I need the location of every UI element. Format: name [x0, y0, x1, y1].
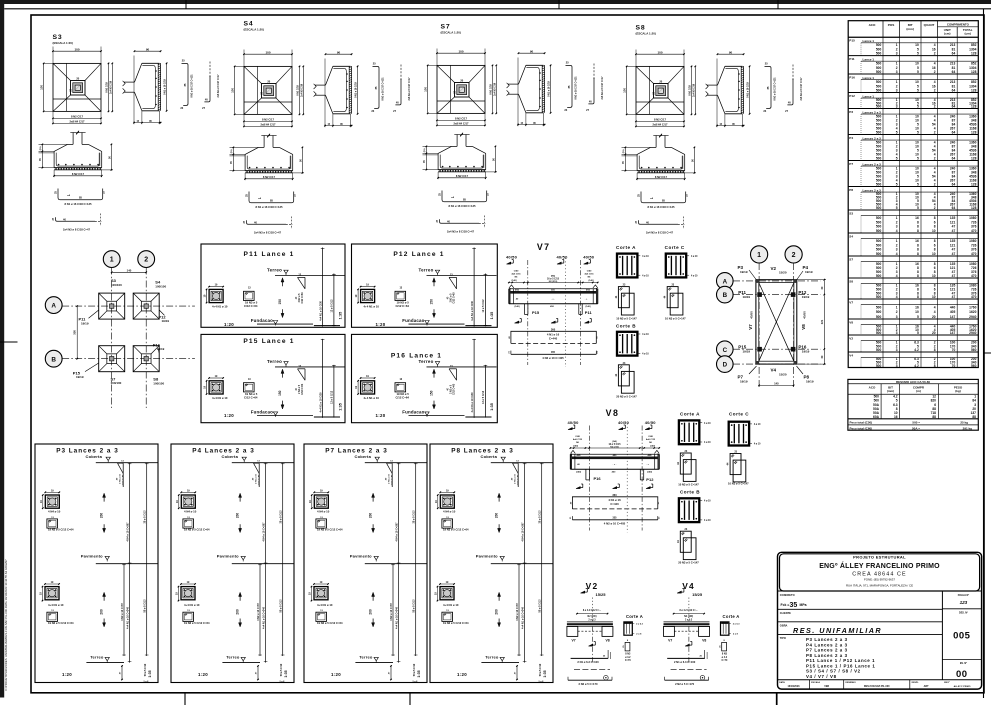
column location plan [758, 263, 760, 389]
svg-text:Lance 1: Lance 1 [863, 94, 875, 98]
grid bubble C [717, 341, 734, 358]
svg-text:5: 5 [917, 52, 919, 56]
svg-text:20 N3 ø 5 C=147: 20 N3 ø 5 C=147 [616, 395, 637, 399]
svg-text:2: 2 [934, 52, 936, 56]
svg-text:V4: V4 [771, 368, 777, 373]
svg-text:10: 10 [932, 229, 936, 233]
svg-text:3: 3 [896, 89, 898, 93]
svg-text:V8: V8 [849, 320, 853, 324]
svg-text:3: 3 [896, 315, 898, 319]
svg-text:50A =: 50A = [912, 426, 920, 430]
svg-text:100/100: 100/100 [111, 283, 122, 287]
svg-text:P8: P8 [849, 188, 853, 192]
svg-text:TIPO: TIPO [780, 636, 786, 640]
svg-text:2: 2 [144, 257, 148, 264]
svg-text:47: 47 [952, 229, 956, 233]
svg-text:19/19: 19/19 [743, 295, 751, 299]
labels [749, 270, 757, 280]
dim 350 between rows [76, 306, 78, 359]
svg-text:V4: V4 [849, 353, 853, 357]
svg-text:64: 64 [952, 70, 956, 74]
svg-text:40/50: 40/50 [750, 311, 754, 319]
footing S8 plan at P16 [133, 346, 159, 372]
svg-text:B: B [723, 292, 728, 299]
svg-text:10: 10 [932, 274, 936, 278]
dim 140 between grids [112, 271, 147, 273]
svg-text:221: 221 [820, 319, 824, 324]
footing S7 plan at P15 [99, 346, 125, 372]
paper edge lines [4, 8, 991, 10]
svg-text:P15 Lance 1: P15 Lance 1 [243, 338, 294, 345]
svg-text:2: 2 [934, 157, 936, 161]
svg-text:8: 8 [917, 274, 919, 278]
grid bubble 2 [785, 246, 802, 263]
svg-text:VER: VER [824, 685, 829, 688]
svg-text:DATA: DATA [779, 681, 785, 684]
svg-text:64: 64 [952, 157, 956, 161]
svg-text:S3: S3 [53, 34, 63, 41]
svg-text:ES. Nº: ES. Nº [960, 662, 967, 665]
svg-text:P16: P16 [849, 75, 855, 79]
svg-text:2: 2 [934, 183, 936, 187]
svg-text:10 N3 ø 5 C=147: 10 N3 ø 5 C=147 [665, 317, 686, 321]
svg-text:(kg): (kg) [955, 389, 961, 393]
svg-text:5: 5 [917, 70, 919, 74]
svg-text:ACO: ACO [869, 23, 876, 27]
svg-text:(ESCALA 1:20): (ESCALA 1:20) [441, 30, 461, 34]
svg-text:15/20: 15/20 [779, 372, 787, 376]
svg-text:P4: P4 [849, 136, 853, 140]
svg-text:128: 128 [971, 89, 977, 93]
svg-text:RES-FUN-SAP-PIL-000: RES-FUN-SAP-PIL-000 [864, 685, 890, 688]
svg-text:PROJETO ESTRUTURAL: PROJETO ESTRUTURAL [853, 555, 906, 560]
svg-text:5: 5 [917, 89, 919, 93]
grid row B [62, 358, 195, 360]
svg-text:291 kg: 291 kg [963, 426, 973, 430]
svg-text:P12 Lance 1: P12 Lance 1 [393, 251, 444, 258]
svg-text:5: 5 [917, 183, 919, 187]
svg-text:140: 140 [127, 268, 132, 272]
svg-text:5: 5 [917, 131, 919, 135]
svg-text:128: 128 [971, 131, 977, 135]
svg-text:Corte B: Corte B [680, 489, 700, 494]
svg-text:4: 4 [896, 229, 898, 233]
svg-text:(cm): (cm) [944, 31, 950, 35]
svg-text:(ESCALA 1:20): (ESCALA 1:20) [636, 31, 656, 35]
svg-text:(cm): (cm) [965, 31, 971, 35]
svg-text:(ESCALA 1:20): (ESCALA 1:20) [244, 27, 264, 31]
column P15 [757, 347, 762, 352]
label P16 [158, 349, 159, 354]
svg-text:500: 500 [876, 274, 882, 278]
svg-text:470: 470 [971, 274, 977, 278]
svg-text:5: 5 [896, 157, 898, 161]
svg-text:S4: S4 [849, 234, 853, 238]
svg-text:P11 Lance 1 / P12 Lance 1: P11 Lance 1 / P12 Lance 1 [806, 658, 875, 663]
svg-text:V7: V7 [537, 242, 551, 252]
svg-text:35: 35 [790, 602, 798, 609]
svg-text:19/19: 19/19 [740, 379, 748, 383]
svg-text:19/19: 19/19 [806, 379, 814, 383]
svg-text:128: 128 [971, 157, 977, 161]
svg-text:20 N3 ø 5 C=147: 20 N3 ø 5 C=147 [678, 561, 699, 565]
svg-text:P7 Lances 2 a 3: P7 Lances 2 a 3 [806, 648, 848, 653]
svg-text:500: 500 [876, 157, 882, 161]
svg-text:D: D [723, 362, 728, 369]
svg-text:19/19: 19/19 [743, 349, 751, 353]
svg-text:1: 1 [757, 252, 761, 259]
svg-text:10: 10 [915, 310, 919, 314]
column P11 [757, 292, 762, 297]
svg-text:1620: 1620 [969, 310, 976, 314]
svg-text:500 =: 500 = [912, 420, 920, 424]
svg-text:47: 47 [952, 252, 956, 256]
svg-text:P15: P15 [532, 310, 540, 315]
svg-text:005: 005 [953, 631, 971, 642]
svg-text:560: 560 [971, 364, 977, 368]
svg-text:V7: V7 [748, 324, 753, 330]
svg-text:100/100: 100/100 [155, 285, 166, 289]
grid row A [62, 305, 195, 307]
svg-text:16: 16 [915, 305, 919, 309]
svg-text:2: 2 [934, 70, 936, 74]
svg-text:3: 3 [896, 70, 898, 74]
label P11 [89, 310, 99, 318]
svg-text:128: 128 [971, 70, 977, 74]
svg-text:P15 Lance 1 / P16 Lance 1: P15 Lance 1 / P16 Lance 1 [806, 663, 875, 668]
svg-text:500: 500 [876, 229, 882, 233]
svg-text:Corte C: Corte C [665, 245, 685, 250]
svg-text:P16: P16 [594, 476, 602, 481]
svg-text:RUA ITÁLIA, 971, MARAPONGA, FO: RUA ITÁLIA, 971, MARAPONGA, FORTALEZA / … [846, 583, 913, 587]
steel summary table [848, 379, 978, 430]
svg-text:19/19: 19/19 [802, 349, 810, 353]
column P11 lance 1 detail box [201, 244, 345, 327]
svg-text:V4 / V7 / V8: V4 / V7 / V8 [806, 674, 837, 679]
svg-text:P11: P11 [585, 310, 593, 315]
svg-text:Corte C: Corte C [729, 412, 749, 417]
svg-text:64: 64 [952, 89, 956, 93]
svg-text:19/19: 19/19 [740, 270, 748, 274]
svg-text:4.2: 4.2 [914, 364, 919, 368]
sheet black margin bands [0, 0, 991, 4]
svg-text:(mm): (mm) [906, 27, 914, 31]
svg-text:P3: P3 [849, 110, 853, 114]
svg-text:RES. UNIFAMILIAR: RES. UNIFAMILIAR [793, 626, 882, 635]
svg-text:500: 500 [876, 52, 882, 56]
footing S3 plan at P11 [99, 293, 125, 319]
svg-text:20: 20 [932, 315, 936, 319]
svg-text:Peso total (C50): Peso total (C50) [850, 420, 873, 424]
svg-text:16/10/2023: 16/10/2023 [788, 685, 801, 688]
grid bubble D [717, 356, 734, 373]
svg-text:P15: P15 [849, 39, 855, 43]
svg-text:V8: V8 [606, 408, 620, 418]
svg-text:47: 47 [952, 274, 956, 278]
svg-text:ENGº ÁLLEY FRANCELINO PRIMO: ENGº ÁLLEY FRANCELINO PRIMO [819, 561, 940, 570]
grid bubble 1 [103, 251, 120, 268]
svg-text:5: 5 [917, 315, 919, 319]
svg-text:Corte A: Corte A [680, 412, 700, 417]
svg-text:500: 500 [876, 183, 882, 187]
svg-text:P8 Lances 2 a 3: P8 Lances 2 a 3 [806, 653, 848, 658]
svg-text:500: 500 [876, 131, 882, 135]
svg-text:V2: V2 [771, 266, 777, 271]
svg-text:10 N3 ø 5 C=147: 10 N3 ø 5 C=147 [678, 483, 699, 487]
svg-text:19/19: 19/19 [805, 270, 813, 274]
svg-text:ENGº: ENGº [944, 681, 950, 684]
grid bubble B [717, 286, 734, 303]
svg-text:Peso total (C60): Peso total (C60) [850, 426, 873, 430]
svg-text:B: B [51, 356, 56, 363]
svg-text:2: 2 [792, 252, 796, 259]
svg-text:64: 64 [952, 131, 956, 135]
svg-text:5: 5 [896, 131, 898, 135]
svg-text:2940: 2940 [969, 315, 976, 319]
column P3 lances 2 a 3 detail box [35, 444, 158, 683]
grid bubble A [45, 297, 62, 314]
svg-text:S7: S7 [849, 257, 853, 261]
svg-text:C: C [723, 347, 728, 354]
svg-text:145: 145 [774, 382, 779, 386]
fold marks [185, 0, 187, 9]
svg-text:DESPL: DESPL [912, 682, 920, 684]
svg-text:500: 500 [876, 70, 882, 74]
svg-text:500: 500 [876, 252, 882, 256]
svg-text:Lance 1: Lance 1 [863, 76, 875, 80]
svg-text:123: 123 [960, 600, 968, 605]
svg-text:P12: P12 [849, 94, 855, 98]
svg-text:10 N3 ø 5 C=147: 10 N3 ø 5 C=147 [616, 317, 637, 321]
svg-text:19/19: 19/19 [162, 319, 170, 323]
svg-text:P4 Lances 2 a 3: P4 Lances 2 a 3 [806, 642, 848, 647]
svg-text:4: 4 [934, 305, 936, 309]
svg-text:V2: V2 [849, 336, 853, 340]
grid line 2 [145, 268, 147, 409]
svg-text:OBRA: OBRA [780, 623, 788, 627]
svg-text:Lance 1: Lance 1 [863, 39, 875, 43]
svg-text:S8: S8 [849, 279, 853, 283]
svg-text:500: 500 [876, 315, 882, 319]
svg-text:V7: V7 [849, 300, 853, 304]
svg-text:500: 500 [876, 305, 882, 309]
column P12 lance 1 detail box [352, 244, 498, 327]
svg-text:Fck =: Fck = [781, 603, 790, 607]
label P15 [85, 363, 99, 372]
svg-text:1760: 1760 [969, 305, 976, 309]
svg-text:10 N3 ø 5 C=147: 10 N3 ø 5 C=147 [728, 482, 749, 486]
svg-text:10: 10 [932, 252, 936, 256]
label P12 [159, 310, 164, 315]
svg-text:470: 470 [971, 229, 977, 233]
svg-text:500: 500 [876, 364, 882, 368]
svg-text:3: 3 [896, 52, 898, 56]
svg-text:4: 4 [934, 310, 936, 314]
svg-text:P11 Lance 1: P11 Lance 1 [244, 251, 295, 258]
svg-text:P3 Lances 2 a 3: P3 Lances 2 a 3 [806, 637, 848, 642]
svg-text:100/100: 100/100 [111, 381, 122, 385]
svg-text:19/19: 19/19 [157, 347, 165, 351]
svg-text:350: 350 [73, 330, 77, 335]
svg-text:ALLEY F PRIMO: ALLEY F PRIMO [954, 685, 971, 688]
svg-text:128: 128 [971, 52, 977, 56]
svg-text:(ESCALA 1:20): (ESCALA 1:20) [53, 41, 73, 45]
svg-text:ACO: ACO [869, 385, 876, 389]
svg-text:POS: POS [888, 23, 895, 27]
grid bubble A [717, 273, 734, 290]
svg-text:CONCRETO: CONCRETO [780, 593, 795, 597]
svg-text:C:/PROJETOS/2023/RES. UNIFAMIL: C:/PROJETOS/2023/RES. UNIFAMILIAR/RES-FU… [4, 559, 8, 691]
beam frame V2/V4/V7/V8 [756, 280, 797, 364]
svg-text:64: 64 [952, 183, 956, 187]
svg-text:8: 8 [934, 364, 936, 368]
svg-text:128: 128 [971, 183, 977, 187]
svg-text:15/20: 15/20 [779, 271, 787, 275]
svg-text:CLIENTE: CLIENTE [780, 611, 791, 615]
svg-text:P12: P12 [646, 477, 654, 482]
svg-text:S3 / S4 / S7 / S8 / V2: S3 / S4 / S7 / S8 / V2 [806, 669, 861, 674]
svg-text:100/100: 100/100 [153, 382, 164, 386]
svg-text:3: 3 [896, 364, 898, 368]
svg-text:(m): (m) [916, 389, 921, 393]
column P4 lances 2 a 3 detail box [171, 444, 294, 683]
svg-text:147: 147 [950, 315, 956, 319]
svg-text:500: 500 [876, 310, 882, 314]
steel schedule table [848, 21, 978, 368]
svg-text:4: 4 [896, 274, 898, 278]
grid line 1 [111, 268, 113, 409]
svg-text:5: 5 [896, 183, 898, 187]
column P16 [791, 347, 796, 352]
svg-text:2: 2 [934, 131, 936, 135]
svg-text:70: 70 [952, 364, 956, 368]
svg-text:(mm): (mm) [887, 389, 894, 393]
svg-text:470: 470 [971, 252, 977, 256]
svg-text:4: 4 [896, 252, 898, 256]
svg-text:500: 500 [876, 89, 882, 93]
footing S4 plan at P12 [133, 293, 159, 319]
grid bubble 1 [751, 246, 768, 263]
svg-text:Corte A: Corte A [616, 245, 636, 250]
svg-text:8: 8 [917, 229, 919, 233]
svg-text:P16 Lance 1: P16 Lance 1 [391, 352, 442, 359]
svg-text:1: 1 [110, 257, 114, 264]
svg-text:ESCALA: ESCALA [811, 681, 820, 684]
column P7 lances 2 a 3 detail box [304, 444, 427, 683]
svg-text:S3: S3 [849, 211, 853, 215]
svg-text:8: 8 [917, 252, 919, 256]
svg-text:40/50: 40/50 [802, 311, 806, 319]
svg-text:2: 2 [896, 310, 898, 314]
column P12 [791, 292, 796, 297]
svg-text:Lance 1: Lance 1 [863, 57, 875, 61]
svg-text:P11: P11 [849, 57, 855, 61]
svg-text:19/19: 19/19 [802, 295, 810, 299]
column P16 lance 1 detail box [352, 334, 498, 422]
grid bubble 2 [138, 251, 155, 268]
svg-text:25 kg: 25 kg [960, 420, 968, 424]
svg-text:2: 2 [934, 89, 936, 93]
column P15 lance 1 detail box [201, 334, 345, 422]
column P8 lances 2 a 3 detail box [430, 444, 553, 683]
svg-text:FONE: (85) 99792-9637: FONE: (85) 99792-9637 [864, 578, 895, 582]
svg-text:1: 1 [896, 305, 898, 309]
svg-text:MPa: MPa [800, 603, 807, 607]
svg-text:DES. Nº: DES. Nº [959, 611, 968, 614]
grid bubble B [45, 350, 62, 367]
svg-text:ART: ART [924, 685, 929, 688]
svg-text:405: 405 [950, 310, 956, 314]
svg-text:QUANT: QUANT [924, 23, 935, 27]
svg-text:64: 64 [952, 52, 956, 56]
svg-text:A: A [723, 279, 728, 286]
svg-text:440: 440 [950, 305, 956, 309]
svg-text:DESENHO: DESENHO [846, 682, 857, 684]
svg-text:V8: V8 [801, 324, 806, 330]
svg-text:00: 00 [956, 669, 968, 680]
svg-text:COMPRIMENTO: COMPRIMENTO [947, 23, 970, 27]
title block [778, 552, 982, 689]
svg-text:P7: P7 [849, 162, 853, 166]
svg-text:A: A [51, 303, 56, 310]
svg-text:5: 5 [917, 157, 919, 161]
svg-text:FOLHA Nº: FOLHA Nº [958, 594, 970, 597]
svg-text:19/19: 19/19 [76, 375, 84, 379]
svg-text:Corte B: Corte B [616, 323, 636, 328]
svg-text:19/19: 19/19 [81, 321, 89, 325]
